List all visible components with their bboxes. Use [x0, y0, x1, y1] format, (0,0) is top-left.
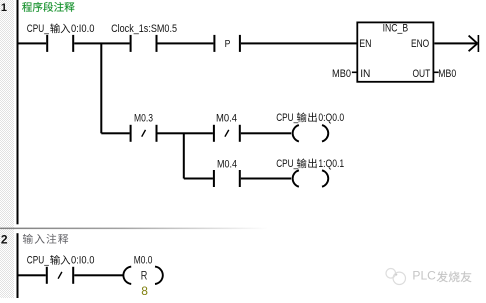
svg-text:0:I0.0: 0:I0.0 [71, 255, 94, 267]
svg-text:Clock_1s:SM0.5: Clock_1s:SM0.5 [111, 23, 177, 35]
svg-text:0:I0.0: 0:I0.0 [71, 23, 94, 35]
svg-text:CPU_: CPU_ [27, 23, 50, 35]
svg-text:INC_B: INC_B [383, 23, 409, 35]
svg-text:M0.0: M0.0 [134, 254, 153, 266]
svg-text:CPU_: CPU_ [276, 112, 299, 124]
svg-text:1: 1 [1, 2, 7, 14]
svg-text:EN: EN [359, 38, 371, 50]
svg-text:M0.4: M0.4 [216, 113, 237, 125]
svg-text:CPU_: CPU_ [27, 255, 50, 267]
svg-text:1:Q0.1: 1:Q0.1 [318, 158, 344, 170]
svg-text:OUT: OUT [413, 68, 431, 80]
svg-text:M0.3: M0.3 [134, 113, 153, 125]
svg-text:8: 8 [141, 284, 148, 298]
svg-text:0:Q0.0: 0:Q0.0 [318, 112, 344, 124]
svg-text:P: P [225, 38, 231, 50]
svg-text:ENO: ENO [411, 38, 430, 50]
svg-text:R: R [141, 268, 148, 282]
svg-text:MB0: MB0 [438, 68, 456, 80]
svg-text:IN: IN [360, 68, 370, 80]
svg-text:M0.4: M0.4 [217, 159, 237, 171]
svg-text:MB0: MB0 [332, 68, 351, 80]
svg-text:CPU_: CPU_ [276, 158, 299, 170]
svg-text:2: 2 [1, 233, 8, 247]
svg-text:PLC: PLC [412, 268, 436, 282]
